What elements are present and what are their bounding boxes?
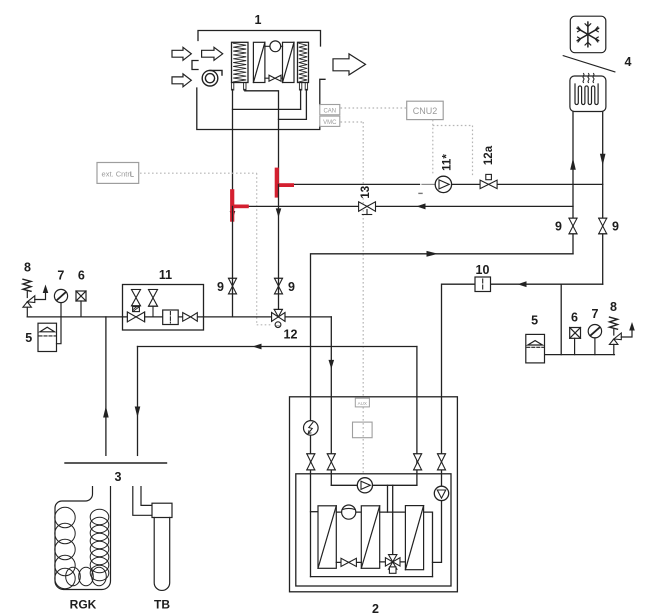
arrow down on pipe2 branch [329,360,335,369]
svg-text:9: 9 [288,280,295,294]
valve 12a motorized [480,174,497,188]
wire: line B with flow meter 10 [442,284,603,486]
wire: bottom bus in unit2 [311,576,433,578]
valve 9 on HX4 left pipe [569,218,577,234]
4-way valve [385,555,400,574]
svg-text:9: 9 [555,220,562,234]
svg-text:7: 7 [57,269,64,283]
svg-text:TB: TB [154,598,170,612]
wire: branch to 4way valve [392,485,394,557]
wire: pipe to source interface (supply) [105,317,107,456]
filter plate (right) [283,42,295,82]
svg-text:10: 10 [476,263,490,277]
air outlet arrow [333,54,366,75]
heat squiggles above HX4 [583,74,594,83]
svg-text:ext. CntrL: ext. CntrL [102,170,135,179]
indoor unit 2 outer box [290,397,458,592]
valve 9 on P1 [229,278,237,294]
arrow down on HX4 right pipe [600,154,606,166]
dotted: ext.CntrL to valve 12 motor [140,173,272,325]
check valve in 11 [183,313,198,322]
wire: pump line in unit2 [331,484,417,486]
small valve in AHU [265,75,283,81]
arrow down on pipe P1 [230,211,236,220]
wire: branch to HX top header [387,485,389,512]
red tee mark T2 on pipe P1 [230,189,249,222]
wire: HX4 right pipe down [602,112,604,285]
air inlet arrow (outer bottom) [172,74,191,87]
wire: AHU coil left port2 bend to P2 [245,90,279,185]
wire: return line from HX4 [233,205,574,207]
wire: AHU internal header [233,108,301,110]
svg-text:AUX: AUX [358,401,367,406]
pressure gauge 7 (right) [588,325,601,355]
svg-text:12a: 12a [483,145,495,165]
electric heater symbol [304,421,319,436]
vent valve in 11 [149,290,158,317]
air inlet arrow (outer top) [172,47,191,60]
unit 1 AHU enclosure [192,31,325,130]
svg-text:9: 9 [217,280,224,294]
arrow left on line B [518,281,527,287]
ext. CntrL box [97,163,139,184]
dotted: VMC to AUX unit 2 [341,121,364,123]
right accessory line [545,354,615,356]
wire: P2 lower [278,184,280,309]
wire: P1 lower [232,206,234,317]
air inlet arrow (inner top) [202,47,223,60]
svg-text:11: 11 [159,268,172,282]
dotted: CAN to CNU2 [341,108,473,474]
wire: branch to unit2 pipe2 [330,317,332,485]
arrow down on pipe P2 [276,208,282,217]
svg-text:6: 6 [78,269,85,283]
pump 11* [435,176,451,192]
compressor [336,505,361,519]
wire: right coil port1 [300,90,302,110]
heat exchanger HX2 [361,506,379,569]
arrow up on source supply pipe [103,406,109,418]
filter plate (left) [253,42,265,82]
svg-text:8: 8 [24,261,31,275]
svg-text:9: 9 [612,220,619,234]
diagonal separator (4) [563,56,615,72]
TB immersion heater [133,487,172,591]
heat exchanger HX1 [318,506,336,569]
flow sensor 10 [475,277,491,292]
wire: HX3 right connector and down [424,512,433,577]
wire: right coil port2 [279,90,307,120]
pump 1 in unit2 [357,478,372,493]
small pump circle in AHU [265,41,283,52]
sensor 6 (right) [570,328,581,355]
wire: pipe to source interface (return) [137,347,139,456]
valve 9 on HX4 right pipe [599,218,607,234]
hydraulic module 11 box [123,285,204,331]
outdoor heat exchanger coil (HX4) [570,76,606,112]
svg-text:8: 8 [610,300,617,314]
sensor 6 (left) [76,291,86,317]
snowflake symbol [577,22,599,47]
snowflake box (4) [570,16,606,53]
wire: drop to right accessory group [560,284,562,354]
3-way motor valve 12 [272,309,285,328]
heating coil (right) [298,42,309,90]
VMC port box [320,116,340,126]
arrow left on line C [253,344,262,350]
svg-text:VMC: VMC [323,120,337,126]
svg-text:7: 7 [592,307,599,321]
svg-text:CNU2: CNU2 [413,106,438,116]
expansion tank 5 (right) [526,334,545,363]
expansion tank 5 (left) [38,317,61,352]
safety valve 8 (left) [23,279,48,317]
CNU2 box [407,101,444,119]
main supply line (left) [27,316,331,318]
wire: HX2-HX3 top connector [380,511,406,513]
arrow right on line A [427,251,439,257]
AUX box [355,398,369,407]
heating coil (left) [231,42,248,90]
wire: pump2 down to HX3 [433,501,442,563]
svg-text:1: 1 [255,13,262,27]
wire: HX4 left pipe down [572,112,574,254]
svg-text:12: 12 [284,328,298,342]
wire: pipe3 to unit2 [416,347,418,486]
svg-text:5: 5 [531,314,538,328]
valve 9 on P2 [275,278,283,294]
RGK ground collector [55,487,111,590]
safety valve 8 (right) [609,317,634,355]
pump 2 in unit2 [434,486,448,500]
svg-text:13: 13 [360,186,372,199]
controller gray box [353,422,373,438]
fan [202,70,222,86]
svg-text:3: 3 [115,470,122,484]
wire: AHU coil left to pipe P1 [232,90,234,207]
arrow left on return line [417,203,426,209]
svg-text:6: 6 [571,311,578,325]
small dash mark [419,192,422,194]
svg-text:2: 2 [372,602,379,616]
svg-text:11*: 11* [442,154,454,171]
safety valve assembly in 11 [127,290,144,322]
source interface line 3 [65,462,167,464]
pressure gauge 7 (left) [54,289,67,317]
heat exchanger HX3 [405,506,423,570]
svg-text:CAN: CAN [323,108,336,114]
svg-text:5: 5 [25,331,32,345]
wire: line A (to unit2 pipe1) [311,254,574,577]
wire: HX1-HX2 bottom with valve [336,561,361,563]
svg-text:RGK: RGK [70,598,97,612]
arrow down on source return pipe [135,407,141,418]
dotted: CNU2 to pump 11* [432,120,434,174]
dotted: CNU2 to valve 12a [472,126,474,178]
wire: HX2-4way-HX3 bottom [380,561,406,563]
valve 13 [359,202,376,215]
filter in 11 [163,310,179,325]
svg-text:4: 4 [625,55,632,69]
arrow up on HX4 left pipe [570,158,576,170]
shutoff valves on unit2 pipes [307,454,446,470]
indoor unit 2 inner box [296,474,451,586]
red tee mark T1 on pipe P2 [275,168,294,198]
wire: supply line to HX4 [279,183,420,185]
wire: HX1 top connector [311,511,319,513]
CAN port box [320,105,340,115]
return line C [138,346,417,348]
